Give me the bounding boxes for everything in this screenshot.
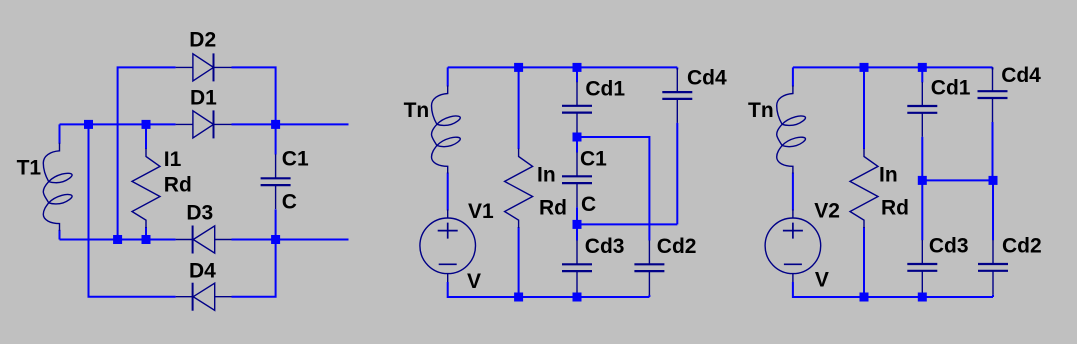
diode D4 (176, 283, 232, 311)
wire right rail lower (275, 209, 277, 239)
svg-text:Cd4: Cd4 (687, 67, 727, 90)
node junction (271, 235, 280, 244)
wire Cd3 lower lead (right) (921, 295, 923, 297)
capacitor Cd4 (right) (978, 67, 1008, 122)
svg-text:Cd1: Cd1 (931, 77, 971, 100)
node junction (860, 63, 869, 72)
svg-text:V: V (467, 270, 481, 293)
svg-text:C1: C1 (580, 147, 607, 170)
wire D2 row right segment (232, 67, 276, 124)
wire D1 row left segment (60, 123, 176, 125)
capacitor C1 value C (261, 154, 291, 209)
wire Cd4 lower lead (676, 123, 678, 224)
capacitor Cd2 (middle) (634, 240, 664, 295)
node junction (142, 235, 151, 244)
svg-text:Tn: Tn (404, 99, 430, 122)
wire Cd1 to C1 node (576, 135, 578, 137)
capacitor Cd2 (right) (978, 240, 1008, 295)
wire bottom rail right (793, 282, 993, 297)
capacitor Cd4 (middle) (662, 68, 692, 123)
diode D3 (176, 226, 232, 254)
wire Cd3 upper lead (right) (921, 180, 923, 240)
node junction (514, 293, 523, 302)
wire C1 node to Cd2 branch (577, 137, 649, 241)
diode D2 (176, 53, 232, 81)
svg-text:V1: V1 (468, 200, 494, 223)
capacitor C1 value C (middle) (562, 152, 592, 207)
svg-text:D3: D3 (186, 201, 213, 224)
voltage source V1 (420, 210, 476, 283)
svg-text:Cd2: Cd2 (657, 235, 697, 258)
capacitor Cd1 (right) (907, 82, 937, 137)
svg-text:D2: D2 (189, 29, 216, 52)
wire junction row link (922, 179, 993, 181)
node junction (113, 235, 122, 244)
wire left branch to D4 row (89, 124, 176, 296)
node junction (918, 63, 927, 72)
svg-text:Rd: Rd (881, 197, 909, 220)
wire D1 row right segment (232, 123, 276, 125)
svg-text:Cd2: Cd2 (1002, 235, 1042, 258)
wire C1 lower lead (576, 207, 578, 224)
capacitor Cd1 (middle) (562, 82, 592, 137)
svg-text:In: In (879, 164, 898, 187)
wire top rail right (793, 66, 993, 68)
node junction (860, 293, 869, 302)
inductor Tn (middle) (432, 67, 461, 210)
node junction (271, 120, 280, 129)
svg-text:V: V (815, 269, 829, 292)
svg-text:V2: V2 (814, 199, 840, 222)
svg-text:Cd3: Cd3 (585, 235, 625, 258)
svg-text:C: C (282, 190, 297, 213)
wire D2 riser and row (118, 67, 176, 239)
wire top rail middle (448, 66, 678, 68)
svg-text:Tn: Tn (748, 99, 774, 122)
resistor In Rd (right) (850, 67, 878, 297)
wire Cd1 upper lead (576, 67, 578, 82)
node junction (989, 176, 998, 185)
inductor T1 (transformer winding) (43, 124, 72, 239)
node junction (573, 63, 582, 72)
node junction (918, 293, 927, 302)
wire Cd2 lower lead (648, 295, 650, 297)
svg-text:I1: I1 (164, 148, 182, 171)
svg-text:Rd: Rd (539, 197, 567, 220)
wire Cd3 lower lead (576, 295, 578, 297)
resistor In Rd (middle) (505, 67, 533, 297)
inductor Tn (right) (777, 67, 806, 210)
wire Cd4 lower lead (right) (992, 122, 994, 180)
svg-text:Cd1: Cd1 (585, 77, 625, 100)
wire Cd3 upper lead (576, 224, 578, 240)
node junction (514, 63, 523, 72)
svg-text:In: In (537, 164, 556, 187)
svg-text:C: C (581, 193, 596, 216)
capacitor Cd3 (middle) (562, 240, 592, 295)
node junction (142, 120, 151, 129)
svg-text:D4: D4 (189, 260, 216, 283)
wire D4 row right segment (232, 240, 276, 297)
svg-text:C1: C1 (282, 148, 309, 171)
node junction (573, 220, 582, 229)
wire Cd4 upper lead (676, 67, 678, 69)
svg-text:Cd4: Cd4 (1001, 64, 1041, 87)
svg-text:T1: T1 (17, 157, 42, 180)
wire D3 output stub (276, 239, 349, 241)
node junction (573, 293, 582, 302)
svg-text:D1: D1 (190, 86, 217, 109)
resistor I1 Rd (132, 124, 160, 239)
svg-text:Rd: Rd (164, 174, 192, 197)
wire C1 upper lead (576, 137, 578, 153)
wire Cd2 upper lead (right) (992, 180, 994, 240)
node junction (918, 176, 927, 185)
wire bottom rail middle (448, 282, 650, 297)
wire Cd4 upper lead (right) (992, 67, 994, 69)
svg-text:Cd3: Cd3 (929, 234, 969, 257)
voltage source V2 (765, 210, 821, 283)
capacitor Cd3 (right) (907, 240, 937, 295)
wire Cd1 lower lead (right) (921, 137, 923, 181)
node junction (84, 120, 93, 129)
diode D1 (176, 110, 232, 138)
wire D3 row left segment (60, 239, 176, 241)
node junction (573, 133, 582, 142)
wire C node to Cd4 branch (577, 223, 677, 225)
wire D1 output stub (276, 123, 349, 125)
wire Cd1 upper lead (right) (921, 67, 923, 82)
wire right rail upper (275, 124, 277, 154)
wire Cd2 lower lead (right) (992, 295, 994, 297)
wire D3 row right segment (232, 239, 276, 241)
